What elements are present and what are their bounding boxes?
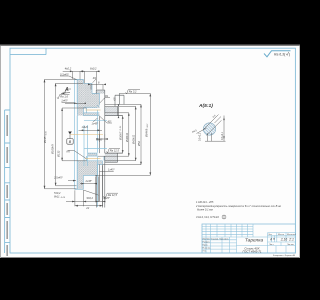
svg-text:Масштаб: Масштаб	[287, 234, 297, 236]
svg-text:1х45°: 1х45°	[61, 99, 68, 103]
svg-text:R1: R1	[93, 76, 97, 80]
svg-text:Утв.: Утв.	[203, 251, 207, 253]
svg-text:0,3x45°: 0,3x45°	[60, 73, 69, 77]
svg-text:1 НВ 241...285: 1 НВ 241...285	[196, 200, 214, 204]
svg-text:ГОСТ 4543-71: ГОСТ 4543-71	[243, 250, 262, 254]
svg-text:Ø160H9: Ø160H9	[50, 144, 54, 155]
svg-text:Тарелка: Тарелка	[245, 237, 264, 243]
svg-text:Ra 6,3: Ra 6,3	[274, 52, 284, 56]
svg-text:2х45°: 2х45°	[96, 137, 104, 141]
svg-text:5±0,2: 5±0,2	[54, 191, 61, 195]
svg-text:Ø195₋₀,₄₆: Ø195₋₀,₄₆	[43, 130, 47, 144]
svg-text:8±0,2: 8±0,2	[90, 66, 97, 70]
svg-text:0,5+0,2: 0,5+0,2	[199, 132, 202, 141]
svg-text:Формат А4: Формат А4	[285, 254, 296, 257]
svg-text:45°: 45°	[108, 120, 112, 124]
svg-text:Лит.: Лит.	[268, 234, 272, 236]
svg-text:9±0,2: 9±0,2	[87, 196, 94, 200]
svg-text:1х45°: 1х45°	[108, 167, 115, 171]
svg-text:Листов: Листов	[287, 244, 295, 246]
svg-text:Ø52: Ø52	[137, 141, 141, 147]
svg-text:Изм Лист № докум. Подп. Дата: Изм Лист № докум. Подп. Дата	[203, 237, 229, 240]
svg-text:4,5: 4,5	[113, 97, 117, 101]
svg-text:2х45°: 2х45°	[85, 179, 93, 183]
svg-text:Ø64Н9₋₀,₁₂: Ø64Н9₋₀,₁₂	[144, 124, 148, 138]
svg-text:22: 22	[85, 206, 89, 210]
svg-text:Ra 1,6: Ra 1,6	[60, 94, 68, 98]
svg-text:Пров.: Пров.	[203, 245, 209, 247]
svg-text:Ø30Н7⁺⁰·⁰²¹: Ø30Н7⁺⁰·⁰²¹	[119, 126, 123, 141]
svg-text:Д: Д	[269, 237, 272, 241]
svg-text:3 Н14, h14, ±IT14/2: 3 Н14, h14, ±IT14/2	[196, 215, 219, 219]
svg-text:1х45°: 1х45°	[92, 122, 99, 126]
svg-text:Разраб.: Разраб.	[203, 241, 211, 243]
svg-text:Лист: Лист	[269, 244, 274, 246]
svg-text:Ø42h11: Ø42h11	[132, 134, 136, 145]
svg-text:Н.контр.: Н.контр.	[203, 248, 211, 250]
svg-text:4±0,2: 4±0,2	[65, 66, 72, 70]
svg-text:Масса: Масса	[278, 234, 285, 236]
svg-text:2,16: 2,16	[280, 238, 288, 242]
svg-text:Ra 12,5: Ra 12,5	[108, 193, 118, 197]
svg-text:2 Неперпендикулярность поверхн: 2 Неперпендикулярность поверхности Б и Г…	[195, 204, 282, 208]
svg-text:8h11₋₀,₀₉: 8h11₋₀,₀₉	[54, 195, 65, 199]
svg-text:А(5:1): А(5:1)	[198, 103, 213, 109]
svg-text:Ra 3,2: Ra 3,2	[129, 89, 137, 93]
svg-text:2,5х45°: 2,5х45°	[53, 176, 63, 180]
svg-text:Ø132: Ø132	[57, 150, 61, 158]
svg-text:R1: R1	[105, 94, 109, 98]
svg-text:более 0,1 мм: более 0,1 мм	[197, 208, 213, 212]
svg-text:П: П	[273, 237, 275, 241]
svg-text:0,3+0,1: 0,3+0,1	[221, 131, 224, 140]
svg-text:14Н9: 14Н9	[82, 125, 89, 129]
svg-text:Ra 12,5: Ra 12,5	[110, 148, 120, 152]
svg-text:Копировал: Копировал	[273, 255, 284, 257]
svg-text:R5: R5	[67, 149, 71, 153]
svg-text:Ø36h11: Ø36h11	[125, 132, 129, 143]
svg-text:А: А	[64, 87, 69, 93]
svg-text:2:1: 2:1	[288, 238, 294, 242]
